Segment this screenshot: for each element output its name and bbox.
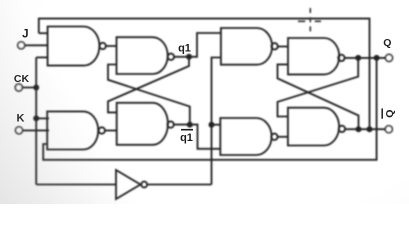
junction: CK to K gate [33,115,39,121]
svg-text:q1: q1 [178,43,191,55]
terminal K [16,127,23,134]
junction: Q node to bottom rail [374,55,380,61]
gate: NAND G2 (K master input gate) [47,111,98,149]
junction: Q-bar to top rail [367,126,373,132]
junction: Q-bar node for cross-feedback [356,126,362,132]
wire: G2 output to master latch [105,130,117,132]
gate: NAND G6 (slave input, bottom) [220,118,271,155]
junction: q1 node [186,54,192,60]
bubble G8 [339,126,345,132]
junction: q1-bar node [187,122,193,128]
svg-text:J: J [22,29,28,41]
gate: NAND G8 (slave latch, Q-bar) [288,108,339,146]
label Q-bar (rotated) [382,108,396,118]
junction: Q node for cross-feedback [355,55,361,61]
bubble inverter [141,182,147,188]
wire: CK stub to J gate bottom input [36,56,48,58]
wire: Q-bar output line [345,128,385,130]
wire: CK input [22,87,36,89]
bubble G1 [100,43,106,49]
terminal CK [15,84,22,91]
wire: q1-bar cross-feedback to G3 bottom input [108,65,190,125]
svg-text:q1: q1 [180,132,193,144]
wire: q1 cross-feedback to G4 top input [108,57,189,113]
bubble G2 [99,127,105,133]
wire: Q-bar cross-feedback to G7 bottom input [278,64,359,129]
gate: NAND G4 (master latch, q1-bar) [117,103,168,145]
wire: G5 output to G7 top input [278,46,288,48]
gate: NAND G5 (slave input, top) [221,28,272,65]
wire: K input [23,129,49,131]
wire: CK-bar stub to G6 top input [212,124,221,126]
wire: top rail stub into J gate top input [39,32,49,34]
wire: J input [25,44,49,46]
bubble G7 [338,55,344,61]
node: dashed crosshair marker [298,8,321,32]
wire: q1-bar output run to slave gate G6 [174,125,221,149]
wire: CK to inverter input [36,184,116,186]
gate: NAND G1 (J master input gate) [48,27,100,66]
wire: CK stub to K gate top input [36,117,49,119]
inverter (clock) [116,170,141,199]
wire: Q-bar feedback top rail [39,19,370,130]
wire: Q cross-feedback to G8 top input [278,58,359,117]
gate: NAND G7 (slave latch, Q) [288,38,339,74]
terminal Q [386,54,393,61]
wire: q1 output run to slave gate G5 [174,33,221,57]
bubble G5 [271,43,277,49]
wire: G1 output to master latch [106,45,117,47]
wire: Q feedback down to bottom rail and K gate bottom input [43,58,376,160]
bubble G6 [271,134,277,140]
junction: CK-bar to G6 [209,122,215,128]
svg-text:Q: Q [384,110,396,118]
wire: inverter output [147,184,211,186]
wire: CK-bar vertical from inverter to slave gates [212,58,221,185]
bubble G3 [168,54,174,60]
junction: CK terminal on bus [33,85,39,91]
wire: CK vertical bus [35,57,37,184]
svg-text:CK: CK [14,73,30,85]
wire: Q output line [345,57,386,59]
svg-text:K: K [17,113,25,125]
bubble G4 [167,121,173,127]
gate: NAND G3 (master latch, q1) [117,37,168,74]
wire: G6 output to G8 bottom input [278,136,288,138]
terminal Q-bar [385,126,392,133]
terminal J [18,42,25,49]
svg-text:Q: Q [383,37,391,49]
overline of q1-bar [181,129,193,131]
